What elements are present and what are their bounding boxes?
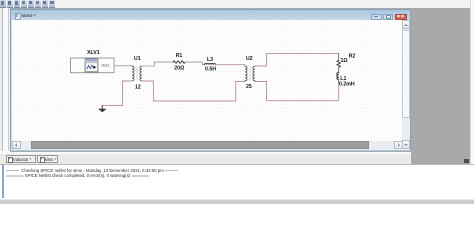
pin L1 bottom <box>338 79 340 84</box>
resistor R2 <box>337 60 340 67</box>
wire L3 to U2 primary top <box>216 65 246 66</box>
wire L1 bottom to U2 secondary bottom <box>255 82 339 101</box>
svg-text:Out1: Out1 <box>102 64 110 68</box>
left dock edge strips <box>0 8 10 151</box>
svg-text:U1: U1 <box>134 56 141 62</box>
tab strip <box>0 152 411 155</box>
title bar <box>11 10 410 20</box>
transformer U2 <box>245 66 255 81</box>
svg-text:25: 25 <box>246 84 252 90</box>
svg-text:0.5H: 0.5H <box>205 67 216 73</box>
tab 1: Inductor <box>6 155 37 164</box>
document window <box>10 9 411 151</box>
ground <box>98 106 107 113</box>
svg-text:20Ω: 20Ω <box>174 66 184 72</box>
transformer U1 <box>132 66 142 81</box>
inductor L1 <box>337 73 339 80</box>
svg-text:R1: R1 <box>176 53 183 59</box>
gray MDI background <box>10 8 470 164</box>
wire U1 primary bottom to ground <box>102 81 132 106</box>
instrument XLV1 <box>71 58 115 73</box>
log panel <box>0 164 474 200</box>
window buttons <box>371 14 382 20</box>
svg-text:L3: L3 <box>207 57 213 63</box>
wire R1 to L3 <box>185 62 204 65</box>
top toolbar strip <box>0 0 474 9</box>
svg-text:0.2mH: 0.2mH <box>339 81 355 87</box>
toolbar icon buttons (cut off at top) <box>0 0 60 8</box>
tab 2: simo <box>37 155 58 164</box>
title text <box>22 13 36 18</box>
svg-text:XLV1: XLV1 <box>87 50 100 56</box>
svg-text:1Ω: 1Ω <box>341 58 348 64</box>
wire U2 secondary top to R2 <box>255 54 339 66</box>
svg-text:R2: R2 <box>349 53 356 59</box>
horizontal scrollbar <box>12 141 402 149</box>
small panel icon at right end of gray area <box>464 159 469 163</box>
bottom status strip <box>0 199 474 205</box>
pin R2 top <box>338 54 340 61</box>
svg-text:U2: U2 <box>246 56 253 62</box>
wire U1 secondary bottom to U2 primary bottom <box>142 81 245 101</box>
right white column <box>470 0 474 165</box>
wire R2 to L1 <box>338 67 340 72</box>
wire XLV1 Out1 to U1 primary top (gray) <box>114 65 132 67</box>
vertical scrollbar <box>402 20 410 149</box>
wire U1 secondary top to R1 <box>142 62 173 66</box>
resistor R1 <box>173 61 185 64</box>
doc icon <box>15 13 22 21</box>
svg-text:12: 12 <box>135 84 141 90</box>
canvas <box>11 20 12 149</box>
inductor L3 <box>205 64 216 65</box>
